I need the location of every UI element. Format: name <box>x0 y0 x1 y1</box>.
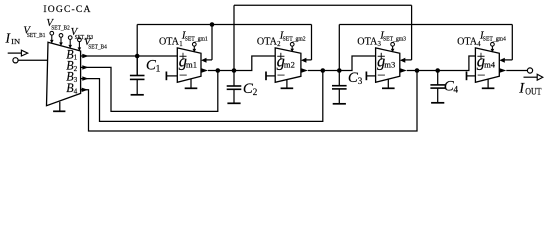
svg-text:3: 3 <box>358 77 363 87</box>
svg-text:SET_gm4: SET_gm4 <box>483 36 507 43</box>
svg-text:OTA: OTA <box>457 37 477 48</box>
svg-text:IN: IN <box>11 37 20 46</box>
svg-text:SET_gm2: SET_gm2 <box>283 36 306 43</box>
svg-text:m3: m3 <box>384 59 396 69</box>
svg-text:1: 1 <box>74 54 78 62</box>
svg-text:SET_B1: SET_B1 <box>27 32 46 39</box>
svg-text:OTA: OTA <box>357 37 377 48</box>
svg-text:SET_B2: SET_B2 <box>51 25 70 32</box>
svg-text:SET_gm1: SET_gm1 <box>185 36 208 43</box>
svg-text:m4: m4 <box>484 59 496 69</box>
svg-text:2: 2 <box>74 65 78 73</box>
svg-text:SET_gm3: SET_gm3 <box>383 36 406 43</box>
svg-text:m2: m2 <box>284 59 295 69</box>
svg-text:OTA: OTA <box>159 37 179 48</box>
svg-text:1: 1 <box>156 65 161 75</box>
svg-text:4: 4 <box>74 87 78 95</box>
svg-text:m1: m1 <box>186 59 197 69</box>
svg-text:2: 2 <box>253 88 258 98</box>
svg-text:4: 4 <box>453 86 458 96</box>
svg-text:1: 1 <box>179 41 182 48</box>
svg-text:SET_B4: SET_B4 <box>88 44 107 51</box>
svg-text:IOGC-CA: IOGC-CA <box>43 4 90 15</box>
svg-text:3: 3 <box>74 76 78 84</box>
svg-text:OUT: OUT <box>525 87 541 97</box>
svg-text:4: 4 <box>477 41 481 48</box>
svg-text:3: 3 <box>378 41 382 48</box>
svg-text:OTA: OTA <box>257 37 277 48</box>
svg-text:2: 2 <box>277 41 281 48</box>
